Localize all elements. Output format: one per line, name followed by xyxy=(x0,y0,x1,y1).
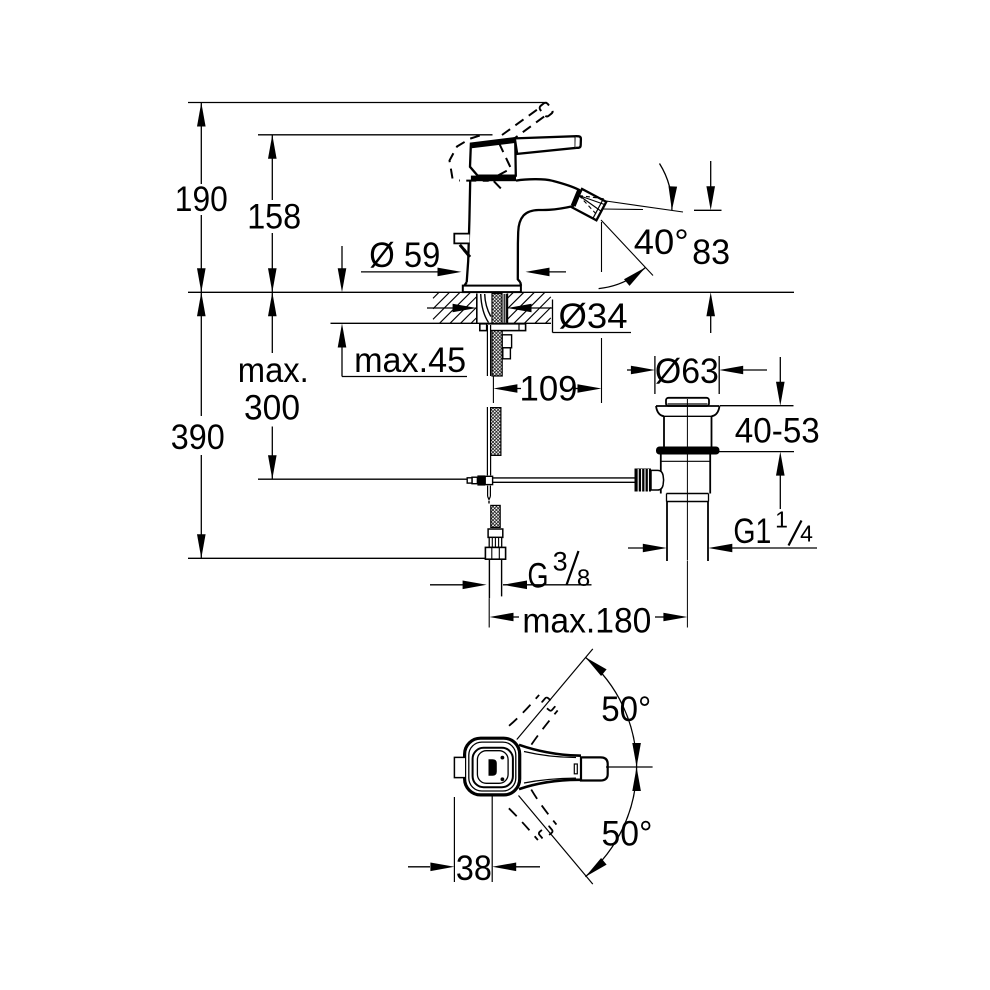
drain collar xyxy=(667,493,709,495)
plan neck groove xyxy=(574,764,577,774)
angle arc upper arrow xyxy=(669,186,678,210)
dim 38 line left xyxy=(408,866,430,868)
lever end cap xyxy=(575,136,581,148)
dimension 190 arrow down xyxy=(197,268,206,292)
shank hose curve 2 xyxy=(485,294,491,317)
dimension 390 arrow up xyxy=(197,292,206,316)
svg-text:8: 8 xyxy=(577,565,590,592)
max180 ext left xyxy=(488,598,490,627)
dimension 190 line lower xyxy=(200,215,202,292)
shank inner line 1 xyxy=(503,294,505,323)
dimension 390 line lower xyxy=(200,455,202,558)
countertop hatching xyxy=(433,292,551,323)
dim 59 arrow right xyxy=(526,268,550,277)
plan diagonal up xyxy=(517,649,593,740)
max45 arrow up stem xyxy=(341,345,343,377)
mounting flange xyxy=(480,324,526,331)
dim G38 shelf xyxy=(503,584,592,586)
drain knob barrel xyxy=(651,470,664,490)
dim max180 arrow right xyxy=(663,613,687,622)
drain funnel inner line xyxy=(664,415,712,417)
pop-up housing step 2 xyxy=(503,348,511,359)
drain plug cap line xyxy=(668,403,708,405)
drain plug cap xyxy=(666,398,709,406)
dim 4053 arrow down stem xyxy=(779,357,781,384)
svg-text:83: 83 xyxy=(692,233,730,272)
pop-up rod tip xyxy=(487,486,489,497)
flange tick 2 xyxy=(518,324,520,331)
dim 34 leader vertical xyxy=(552,300,554,333)
plan logo blob xyxy=(489,759,497,776)
plan arm outline xyxy=(519,745,581,789)
dim G38 arrow right xyxy=(503,581,527,590)
plan dashed arm down xyxy=(509,790,561,844)
faucet spout outline xyxy=(516,179,579,243)
svg-text:max.180: max.180 xyxy=(522,601,651,640)
countertop top line xyxy=(188,291,794,293)
linkage joint black xyxy=(477,475,485,485)
dim 34 arrow right xyxy=(508,304,532,313)
svg-text:50°: 50° xyxy=(602,814,653,853)
cartridge tick xyxy=(494,181,501,188)
plan arc lower xyxy=(585,767,636,877)
spray line mid xyxy=(602,208,643,211)
dim 38 arrow left xyxy=(430,863,454,872)
dim 4053 top ref xyxy=(720,405,794,407)
plan arm inner line bottom xyxy=(524,778,576,783)
linkage horizontal rod bottom xyxy=(493,481,635,483)
dim 109 ext left xyxy=(492,377,494,404)
aerator junction band xyxy=(573,190,579,206)
max45 arrow down stem xyxy=(341,246,343,270)
spray line A xyxy=(606,201,683,212)
pop-up rod over hose xyxy=(487,407,490,475)
svg-text:Ø 59: Ø 59 xyxy=(369,236,440,275)
angle arc lower arrow xyxy=(624,268,645,286)
dim G38 line left xyxy=(430,584,463,586)
drain seal ring xyxy=(656,447,720,455)
dim 63 arrow left xyxy=(631,366,655,375)
hose fitting collar xyxy=(488,529,503,537)
dim 109 line right stub xyxy=(575,388,578,390)
reference line 158 xyxy=(258,134,493,136)
svg-text:max.: max. xyxy=(238,351,309,390)
svg-text:3: 3 xyxy=(553,547,568,577)
drain tailpipe xyxy=(666,502,668,562)
dimension 158 arrow down xyxy=(268,268,277,292)
dim 38 line right xyxy=(516,866,540,868)
handle body xyxy=(470,138,516,175)
pop-up knob marks xyxy=(460,245,470,257)
linkage stub inner xyxy=(467,478,472,483)
plan arc upper xyxy=(585,657,636,767)
flange tick 1 xyxy=(486,324,488,331)
svg-text:G1: G1 xyxy=(733,512,771,551)
shank tube left xyxy=(476,294,478,324)
plan left tab xyxy=(454,757,465,777)
spout axis line B xyxy=(601,220,653,276)
dimension 390 arrow down xyxy=(197,534,206,558)
dimension max300 line lower xyxy=(271,427,273,480)
dim 63 line right xyxy=(740,369,767,371)
countertop bottom line xyxy=(331,322,552,324)
plan arm inner line top xyxy=(524,752,576,758)
shank tube right xyxy=(506,294,508,324)
dim max180 arrow left xyxy=(490,613,514,622)
dim 4053 bottom ref xyxy=(718,451,794,453)
angle arc upper xyxy=(660,164,672,211)
hose pipe xyxy=(488,559,490,598)
svg-text:4: 4 xyxy=(800,521,813,547)
dim 109 arrow right xyxy=(578,384,602,393)
hose fitting ribs xyxy=(489,537,502,547)
svg-text:Ø63: Ø63 xyxy=(655,352,719,391)
drain body line xyxy=(661,460,710,462)
dim 109 line left stub xyxy=(517,388,521,390)
top reference line 190 xyxy=(188,102,547,104)
dim 4053 arrow down xyxy=(776,382,785,406)
handle top edge thick xyxy=(472,141,515,146)
plan dot top xyxy=(501,756,505,760)
drain knurled knob xyxy=(635,469,652,492)
dim max180 line right stub xyxy=(655,616,664,618)
plan bowtie arrow lower xyxy=(632,767,641,791)
dim 63 ext right xyxy=(718,356,720,394)
dimension 390 line upper xyxy=(200,293,202,416)
dim 34 underline xyxy=(553,332,632,334)
drain funnel xyxy=(656,406,720,416)
dim 4053 arrow up xyxy=(776,452,785,476)
linkage horizontal rod top xyxy=(493,477,635,479)
dim 34 arrow left xyxy=(453,304,477,313)
faucet body column edges xyxy=(464,181,521,285)
linkage joint white xyxy=(485,476,492,484)
plan handle body outer xyxy=(465,738,520,795)
svg-text:40-53: 40-53 xyxy=(735,411,820,450)
dim 63 ext left xyxy=(654,356,656,394)
drain body upper xyxy=(663,416,665,446)
svg-text:40°: 40° xyxy=(634,223,689,262)
handle lever xyxy=(515,136,576,154)
drain centerline xyxy=(686,399,688,561)
dimension 190 arrow up xyxy=(197,103,206,127)
hose nut G38 xyxy=(485,547,505,559)
83 top reference line xyxy=(694,209,722,211)
dim G38 arrow left xyxy=(463,581,487,590)
dimension 158 arrow up xyxy=(268,135,277,159)
390 bottom reference line xyxy=(188,557,485,559)
plan centerline xyxy=(606,766,653,768)
drain body below ring xyxy=(660,455,662,494)
shank hose curve 1 xyxy=(481,294,489,323)
plan handle ring 2 xyxy=(469,742,516,791)
max45 arrow down xyxy=(338,268,347,292)
83 arrow up stem xyxy=(710,314,712,333)
83 arrow down stem xyxy=(710,161,712,188)
dim max180 line left stub xyxy=(513,616,519,618)
svg-text:50°: 50° xyxy=(601,690,651,729)
max45 arrow up xyxy=(338,324,347,348)
dim 59 line left xyxy=(361,271,440,273)
max300 reference line xyxy=(258,478,467,480)
dim 34 line left xyxy=(427,307,456,309)
dim 59 arrow left xyxy=(438,268,462,277)
cartridge ring xyxy=(471,176,516,182)
dim 38 ext right xyxy=(491,796,493,882)
svg-text:109: 109 xyxy=(520,369,578,408)
plan dot bottom xyxy=(501,777,505,781)
label G114 slash xyxy=(789,521,802,546)
pop-up knob xyxy=(454,234,469,244)
dim 109 arrow left xyxy=(493,384,517,393)
extension line x601 upper xyxy=(601,222,603,272)
plan arc upper arrow xyxy=(585,657,606,676)
dashed raised handle xyxy=(450,102,554,181)
dim 59 line right xyxy=(546,271,566,273)
hose lower section xyxy=(491,505,500,527)
max45 shelf line xyxy=(342,376,467,378)
plan knob xyxy=(581,757,608,780)
svg-text:190: 190 xyxy=(175,180,228,219)
dim 63 arrow right xyxy=(719,366,743,375)
dimension 190 line upper xyxy=(200,103,202,184)
svg-text:300: 300 xyxy=(244,389,300,428)
dim 4053 arrow up stem xyxy=(779,473,781,509)
aerator fan lines xyxy=(579,196,605,212)
dim 38 arrow right xyxy=(492,863,516,872)
shank inner line 2 xyxy=(505,294,507,323)
pop-up housing step 1 xyxy=(502,335,511,348)
dim 38 ext left xyxy=(453,797,455,882)
plan handle ring 4 xyxy=(477,751,508,784)
pop-up rod tip dash xyxy=(488,501,490,504)
hose upper section xyxy=(490,408,501,456)
aerator box xyxy=(572,189,606,220)
dim G114 arrow left xyxy=(643,544,667,553)
svg-text:Ø34: Ø34 xyxy=(559,297,628,336)
svg-text:G: G xyxy=(528,556,549,595)
dim G114 arrow right xyxy=(708,544,732,553)
svg-text:max.45: max.45 xyxy=(354,341,466,380)
svg-text:390: 390 xyxy=(171,418,225,457)
pop-up rod upper xyxy=(487,325,490,376)
angle arc lower xyxy=(599,268,646,289)
dim G114 line left xyxy=(628,547,645,549)
dim G114 line right xyxy=(730,547,817,549)
svg-text:158: 158 xyxy=(247,198,301,237)
plan arc lower arrow xyxy=(585,858,606,877)
dim 63 line left xyxy=(627,369,637,371)
linkage stub outer xyxy=(472,477,477,484)
svg-text:1: 1 xyxy=(775,507,788,533)
83 arrow up xyxy=(706,292,715,316)
83 arrow down xyxy=(706,186,715,210)
plan bowtie arrow upper xyxy=(632,743,641,767)
dim 34 line right xyxy=(528,307,553,309)
dimension 158 line upper xyxy=(271,135,273,200)
dimension max300 arrow down xyxy=(268,455,277,479)
shank threaded rod xyxy=(492,294,502,324)
dim 109 ext right xyxy=(601,338,603,403)
dimension max300 arrow up xyxy=(268,292,277,316)
dimension 158 line lower xyxy=(271,233,273,292)
threaded rod below flange xyxy=(492,331,502,376)
plan handle ring 3 xyxy=(473,748,513,787)
faucet base plate xyxy=(463,286,521,293)
dimension max300 line upper xyxy=(271,293,273,353)
label G38 slash xyxy=(567,551,579,585)
plan dashed arm up xyxy=(509,690,561,744)
svg-text:38: 38 xyxy=(456,849,492,888)
plan diagonal down xyxy=(519,796,593,885)
